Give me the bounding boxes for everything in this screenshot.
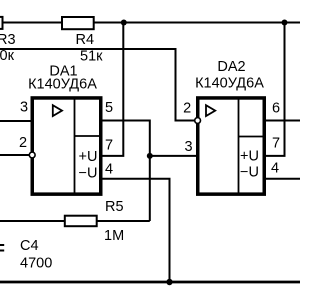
svg-text:51к: 51к (80, 49, 103, 65)
wire DA1 +U supply drop to pin 7 (100, 23, 123, 156)
resistor R4 (62, 17, 94, 29)
svg-text:К140УД6А: К140УД6А (28, 77, 97, 93)
svg-text:0к: 0к (0, 48, 15, 64)
svg-text:R4: R4 (76, 32, 95, 48)
junction node on bottom rail (166, 279, 172, 285)
op-amp DA2 body (198, 98, 265, 194)
wire DA1 pin 2 input (0, 154, 29, 156)
wire R5 row (0, 220, 150, 222)
wire DA1 pin 5 down to R5 row (102, 121, 150, 222)
svg-text:4700: 4700 (20, 256, 52, 272)
svg-text:К140УД6А: К140УД6А (195, 76, 264, 92)
svg-text:−U: −U (79, 166, 98, 182)
svg-text:2: 2 (19, 135, 27, 151)
op-amp DA1 body (32, 98, 101, 194)
inverting input circle DA2 pin 2 (195, 118, 201, 124)
capacitor C4 bottom plate (cut at edge) (0, 250, 4, 252)
junction node top rail to DA2 +U drop (282, 20, 288, 26)
capacitor C4 top plate (cut at edge) (0, 244, 4, 246)
resistor R5 (65, 216, 97, 227)
wire DA2 +U supply drop to pin 7 (264, 23, 285, 156)
svg-text:+U: +U (240, 149, 259, 165)
wire DA2 pin 4 (264, 178, 300, 180)
junction node top rail to DA1 +U drop (121, 20, 127, 26)
svg-text:4: 4 (271, 161, 279, 177)
svg-text:7: 7 (105, 137, 113, 153)
junction node DA1 pin5 / DA2 pin3 / R5 (147, 153, 153, 159)
svg-text:7: 7 (272, 136, 280, 152)
wire +U top rail (0, 22, 300, 24)
svg-text:5: 5 (105, 100, 113, 116)
wire bottom rail (0, 281, 300, 284)
wire DA1 pin 4 to bottom rail (102, 179, 170, 282)
svg-text:R3: R3 (0, 32, 16, 48)
svg-text:3: 3 (20, 100, 28, 116)
svg-text:3: 3 (184, 139, 192, 155)
svg-text:4: 4 (105, 162, 113, 178)
wire branch to DA2 pin 3 (150, 155, 197, 157)
svg-text:+U: +U (79, 149, 98, 165)
inverting input circle DA1 pin 2 (29, 152, 35, 158)
svg-text:DA2: DA2 (217, 59, 245, 75)
svg-text:R5: R5 (105, 199, 124, 215)
svg-text:C4: C4 (20, 238, 39, 254)
wire DA1 pin 3 input (0, 120, 32, 122)
wire input rail to DA2 pin 2 (0, 49, 194, 121)
svg-text:−U: −U (240, 165, 259, 181)
wire DA2 pin 6 output (264, 120, 300, 122)
resistor R3 (partially off-canvas) (0, 17, 3, 29)
svg-text:6: 6 (272, 101, 280, 117)
svg-text:2: 2 (183, 101, 191, 117)
svg-text:1М: 1М (104, 228, 124, 244)
